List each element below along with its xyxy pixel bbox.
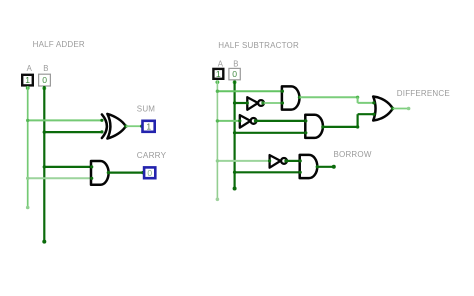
end dot wire A2	[216, 198, 220, 202]
and gate U2 (CARRY)	[91, 161, 109, 185]
input pin A2 (value 1)	[213, 69, 223, 79]
wire AND1 bend down (high)	[357, 97, 359, 103]
and gate U4 (A AND NOT B)	[282, 86, 300, 109]
wire B1 to AND top input (low)	[44, 166, 91, 168]
wire B2 to AND3 bottom input (low)	[235, 171, 300, 173]
wire AND1 output right (high)	[300, 96, 358, 98]
svg-text:1: 1	[146, 121, 151, 131]
not1 output dot	[261, 101, 264, 104]
end dot wire B2	[233, 187, 237, 191]
svg-text:0: 0	[42, 75, 47, 85]
junction dot B1/XOR wire	[43, 130, 46, 133]
node dot below pin B2	[233, 80, 237, 84]
svg-text:A: A	[27, 64, 33, 73]
svg-text:B: B	[233, 59, 238, 68]
node dot at SUM pin input	[140, 125, 143, 128]
and2 input dot bottom	[304, 131, 307, 134]
svg-text:BORROW: BORROW	[334, 150, 372, 159]
wire NOT2 output to AND2 top input (low)	[257, 120, 306, 122]
end dot wire B1	[42, 240, 46, 244]
not gate U8 (inverts A for borrow)	[270, 155, 287, 168]
wire AND output to CARRY pin (low)	[109, 172, 144, 174]
svg-text:0: 0	[147, 168, 152, 178]
wire A2 to AND1 top input (high)	[217, 90, 282, 92]
svg-text:B: B	[43, 64, 48, 73]
svg-text:1: 1	[216, 69, 221, 79]
junction dot B1/AND wire	[43, 165, 46, 168]
wire OR output (high)	[393, 108, 409, 110]
wire NOT3 output to AND3 top input (low)	[287, 160, 300, 162]
output pin SUM (value 1)	[143, 121, 155, 132]
input pin B2 (value 0)	[229, 68, 240, 79]
wire AND2 bend up (low)	[357, 114, 359, 127]
output pin CARRY (value 0)	[144, 167, 155, 178]
junction dot B2/AND2 wire	[233, 131, 236, 134]
wire to OR top input (high)	[358, 102, 374, 104]
junction dot A1/AND wire	[26, 177, 29, 180]
and gate U6 (NOT A AND B)	[305, 115, 323, 138]
svg-text:DIFFERENCE: DIFFERENCE	[397, 89, 450, 98]
node dot at CARRY pin input	[141, 171, 144, 174]
svg-text:1: 1	[25, 75, 30, 85]
or output dot	[391, 107, 394, 110]
end dot difference wire	[407, 107, 411, 111]
wire to OR bottom input (low)	[358, 113, 374, 115]
svg-text:HALF ADDER: HALF ADDER	[33, 40, 85, 49]
junction dot B2/AND3 wire	[233, 171, 236, 174]
and2 output dot	[321, 125, 324, 128]
not3 output dot	[284, 159, 287, 162]
end dot borrow wire	[332, 165, 336, 169]
node dot below pin A1	[26, 86, 30, 90]
and input dot bottom	[90, 177, 93, 180]
not3 input dot	[268, 159, 271, 162]
or input dot bottom	[372, 113, 375, 116]
node dot below pin B1	[42, 86, 46, 90]
junction dot B2/NOT1 wire	[233, 101, 236, 104]
wire A2 vertical (high)	[216, 81, 218, 200]
and1 output dot	[298, 96, 301, 99]
junction dot A1/XOR wire	[26, 119, 29, 122]
end dot wire A1	[26, 206, 30, 210]
or input dot top	[372, 101, 375, 104]
node dot below pin A2	[216, 80, 220, 84]
and2 input dot top	[304, 119, 307, 122]
and3 input dot top	[299, 159, 302, 162]
xor input dot top	[100, 119, 103, 122]
svg-text:CARRY: CARRY	[137, 151, 167, 160]
corner dot and2 wire	[356, 125, 359, 128]
corner dot and1 wire	[356, 96, 359, 99]
and3 output dot	[316, 165, 319, 168]
wire A2 to NOT2 input (high)	[217, 120, 239, 122]
not2 input dot	[238, 119, 241, 122]
wire A2 to NOT3 input (high)	[217, 160, 269, 162]
wire B2 vertical (low)	[234, 81, 236, 189]
wire B2 to AND2 bottom input (low)	[235, 132, 306, 134]
svg-text:HALF SUBTRACTOR: HALF SUBTRACTOR	[218, 41, 299, 50]
xor input dot bottom	[100, 130, 103, 133]
xor output dot	[124, 125, 127, 128]
wire A1 to AND bottom input (high)	[28, 177, 92, 179]
not2 output dot	[254, 119, 257, 122]
junction dot A2/AND1 wire	[216, 90, 219, 93]
or gate U7 (DIFFERENCE)	[373, 97, 393, 121]
wire XOR output to SUM pin (high)	[126, 125, 142, 127]
and input dot top	[90, 165, 93, 168]
and gate U9 (BORROW)	[300, 155, 318, 178]
xor gate U1 (SUM)	[102, 114, 126, 139]
input pin B1 (value 0)	[39, 74, 51, 86]
svg-text:A: A	[218, 59, 224, 68]
wire B1 vertical (low)	[43, 86, 45, 242]
and1 input dot bottom	[281, 101, 284, 104]
wire B2 to NOT1 input (low)	[235, 102, 248, 104]
wire NOT1 output to AND1 bottom input (high)	[264, 102, 282, 104]
wire AND2 output right (low)	[323, 126, 358, 128]
input pin A1 (value 1)	[22, 75, 33, 86]
wire A1 vertical (high)	[27, 86, 29, 208]
not1 input dot	[246, 101, 249, 104]
svg-text:SUM: SUM	[137, 105, 156, 114]
svg-text:0: 0	[232, 69, 237, 79]
junction dot A2/NOT2 wire	[216, 119, 219, 122]
wire A1 to XOR top input (high)	[28, 119, 102, 121]
not gate U3 (inverts B for difference)	[247, 97, 264, 110]
wire B1 to XOR bottom input (low)	[44, 131, 102, 133]
not gate U5 (inverts A for difference)	[240, 115, 257, 128]
and1 input dot top	[281, 90, 284, 93]
and output dot	[107, 171, 110, 174]
junction dot A2/NOT3 wire	[216, 159, 219, 162]
wire AND3 output (low)	[318, 166, 334, 168]
and3 input dot bottom	[299, 171, 302, 174]
